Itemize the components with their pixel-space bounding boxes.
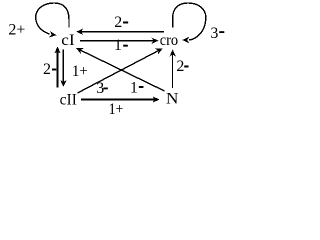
svg-text:N: N (166, 90, 179, 107)
svg-text:cro: cro (160, 32, 178, 49)
edge cII to cI (up arrow) (54, 47, 60, 88)
label 2- (cII to cI) (43, 61, 56, 78)
edge cI to cII (down arrow) (60, 50, 66, 88)
svg-text:3: 3 (210, 25, 218, 42)
svg-text:2: 2 (114, 14, 122, 31)
svg-text:2+: 2+ (8, 22, 25, 39)
self-loop on cI (36, 3, 69, 38)
label 2- (N to cro) (176, 58, 188, 75)
svg-text:cII: cII (60, 92, 77, 109)
svg-text:1+: 1+ (109, 101, 124, 118)
edge cI to cro (80, 38, 159, 44)
label 1- (N to cI) (130, 80, 144, 97)
svg-text:cI: cI (61, 32, 74, 49)
self-loop on cro (173, 3, 206, 43)
label 3- (cII to cro) (96, 80, 108, 97)
edge N to cI (diagonal) (75, 45, 165, 91)
edge cro to cI (76, 29, 164, 35)
label 3- (cro self-loop) (210, 25, 224, 42)
svg-text:2: 2 (43, 61, 51, 78)
svg-text:2: 2 (176, 58, 184, 75)
svg-text:1: 1 (114, 37, 122, 54)
edge cII to cro (diagonal) (78, 45, 165, 93)
label 2- (cro to cI) (114, 14, 128, 31)
svg-text:3: 3 (96, 80, 104, 97)
svg-text:1: 1 (130, 80, 138, 97)
edge cII to N (81, 96, 160, 102)
svg-text:1+: 1+ (72, 63, 88, 80)
label 1- (cI to cro) (114, 37, 128, 54)
edge N to cro (up arrow) (170, 50, 176, 89)
